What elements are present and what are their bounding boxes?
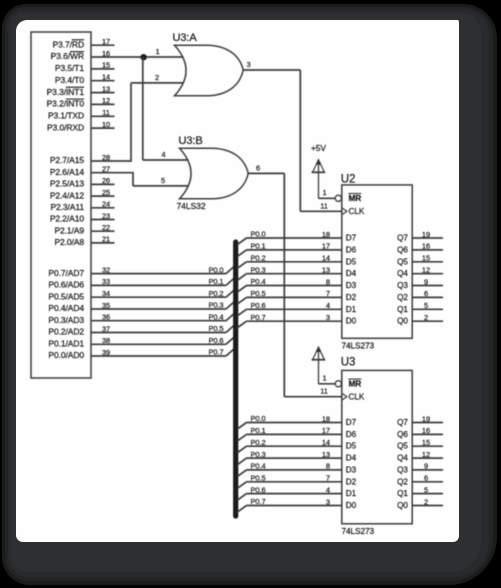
svg-text:P0.4: P0.4 (251, 277, 266, 286)
op-amp U3:A OR gate 74LS32 (173, 32, 244, 96)
svg-text:14: 14 (322, 254, 330, 263)
svg-text:P2.0/A8: P2.0/A8 (54, 237, 84, 247)
svg-text:Q7: Q7 (397, 234, 408, 243)
svg-text:P0.0: P0.0 (251, 230, 266, 239)
svg-text:P0.4/AD4: P0.4/AD4 (48, 303, 84, 313)
pin 14 P3.4/T0 (55, 73, 115, 85)
svg-text:16: 16 (422, 426, 430, 435)
svg-text:15: 15 (422, 254, 430, 263)
svg-text:P0.5: P0.5 (208, 324, 223, 333)
wire U3 Q2 output pin 6 (397, 474, 443, 487)
wire U3 Q5 output pin 15 (397, 438, 443, 451)
wire U3 Q0 output pin 2 (397, 497, 443, 510)
pin 34 P0.5/AD5 wire to bus net P0.2 (48, 289, 234, 302)
svg-text:D7: D7 (346, 418, 357, 427)
svg-text:P3.1/TXD: P3.1/TXD (48, 111, 84, 121)
svg-text:D7: D7 (346, 234, 357, 243)
svg-text:P0.6: P0.6 (208, 336, 223, 345)
svg-text:39: 39 (102, 348, 110, 357)
svg-text:P0.6: P0.6 (251, 301, 266, 310)
svg-text:P0.1: P0.1 (208, 277, 223, 286)
svg-text:35: 35 (102, 301, 110, 310)
svg-text:2: 2 (155, 73, 159, 82)
svg-text:D5: D5 (346, 257, 357, 266)
svg-text:MR: MR (349, 193, 362, 203)
svg-text:D2: D2 (346, 293, 357, 302)
wire bus P0.3 to U2 D4 pin 13 (237, 265, 357, 280)
svg-text:P2.5/A13: P2.5/A13 (50, 179, 85, 189)
pin 35 P0.4/AD4 wire to bus net P0.3 (48, 301, 234, 314)
svg-text:2: 2 (424, 497, 428, 506)
wire U2 Q3 output pin 9 (397, 277, 443, 290)
svg-text:P0.4: P0.4 (251, 462, 266, 471)
label 74LS32 (177, 201, 206, 211)
svg-text:6: 6 (256, 163, 260, 172)
svg-text:34: 34 (102, 289, 110, 298)
svg-text:P0.2: P0.2 (208, 289, 223, 298)
svg-text:U3: U3 (341, 356, 356, 368)
svg-text:38: 38 (102, 336, 110, 345)
svg-text:23: 23 (102, 211, 110, 220)
pin 28 P2.7/A15 (50, 153, 132, 165)
svg-text:Q6: Q6 (397, 245, 408, 254)
wire bus P0.1 to U3 D6 pin 17 (237, 426, 357, 441)
svg-text:3: 3 (326, 497, 330, 506)
svg-text:22: 22 (102, 223, 110, 232)
svg-text:P0.6: P0.6 (251, 485, 266, 494)
pin 36 P0.3/AD3 wire to bus net P0.4 (48, 312, 234, 325)
svg-text:P0.7: P0.7 (208, 348, 223, 357)
svg-text:4: 4 (326, 301, 330, 310)
+5V power symbol (U2) (311, 143, 326, 198)
pin 25 P2.4/A12 (50, 188, 115, 200)
svg-text:Q6: Q6 (397, 430, 408, 439)
svg-text:11: 11 (320, 201, 328, 210)
svg-text:Q0: Q0 (397, 501, 408, 510)
svg-text:13: 13 (102, 84, 110, 93)
svg-text:36: 36 (102, 313, 110, 322)
svg-text:D3: D3 (346, 465, 357, 474)
svg-text:Q0: Q0 (397, 317, 408, 326)
svg-text:P0.3: P0.3 (208, 301, 223, 310)
svg-text:9: 9 (424, 277, 428, 286)
svg-text:2: 2 (424, 313, 428, 322)
svg-text:Q4: Q4 (397, 269, 408, 278)
IC U2 74LS273 (341, 173, 412, 338)
svg-text:U2: U2 (341, 173, 356, 185)
svg-text:Q3: Q3 (397, 465, 408, 474)
wire U3:B output 6 to U3 CLK (248, 163, 342, 396)
wire U2 Q6 output pin 16 (397, 242, 443, 255)
wire pin 11 into U3 CLK (320, 387, 328, 396)
svg-text:Q1: Q1 (397, 305, 408, 314)
svg-text:D0: D0 (346, 317, 357, 326)
svg-text:3: 3 (247, 60, 251, 69)
svg-text:MR: MR (349, 379, 362, 389)
svg-text:4: 4 (326, 485, 330, 494)
pin 21 P2.0/A8 (54, 235, 114, 247)
wire bus P0.5 to U2 D2 pin 7 (237, 289, 357, 304)
wire bus P0.0 to U2 D7 pin 18 (237, 230, 357, 245)
svg-text:D1: D1 (346, 305, 357, 314)
pin 16 P3.6/WR (51, 49, 115, 61)
svg-text:P2.4/A12: P2.4/A12 (50, 190, 85, 200)
pin 23 P2.2/A10 (50, 211, 115, 223)
svg-text:5: 5 (424, 485, 428, 494)
svg-text:P3.3/INT1: P3.3/INT1 (47, 87, 85, 97)
svg-text:P3.7/RD: P3.7/RD (53, 39, 84, 49)
wire P2.6/A14 down to U3:B input 5 (133, 173, 189, 186)
svg-text:15: 15 (102, 61, 110, 70)
wire +5V to U3 MR pin 1 (319, 373, 336, 384)
svg-text:26: 26 (102, 176, 110, 185)
svg-text:Q4: Q4 (397, 454, 408, 463)
wire U2 Q2 output pin 6 (397, 289, 443, 302)
svg-text:P0.3: P0.3 (251, 265, 266, 274)
svg-text:7: 7 (326, 289, 330, 298)
svg-text:12: 12 (422, 266, 430, 275)
svg-text:D2: D2 (346, 477, 357, 486)
pin 27 P2.6/A14 (50, 165, 134, 177)
svg-text:24: 24 (102, 200, 110, 209)
svg-text:74LS273: 74LS273 (342, 341, 375, 351)
svg-text:9: 9 (424, 462, 428, 471)
svg-text:11: 11 (102, 108, 109, 117)
IC U3 74LS273 (341, 356, 412, 523)
svg-text:1: 1 (323, 373, 327, 382)
svg-text:P2.7/A15: P2.7/A15 (50, 155, 85, 165)
wire U3 Q4 output pin 12 (397, 450, 443, 463)
svg-text:P0.7/AD7: P0.7/AD7 (48, 268, 84, 278)
wire U3 Q3 output pin 9 (397, 462, 443, 475)
pin 17 P3.7/RD (53, 37, 115, 49)
pin 12 P3.2/INT0 (47, 96, 115, 108)
svg-text:P0.1/AD1: P0.1/AD1 (48, 339, 84, 349)
wire +5V to U2 MR pin 1 (319, 188, 336, 199)
svg-text:Q3: Q3 (397, 281, 408, 290)
svg-text:5: 5 (161, 176, 165, 185)
wire bus P0.2 to U3 D5 pin 14 (237, 438, 357, 453)
pin 13 P3.3/INT1 (47, 84, 115, 96)
svg-text:P0.2/AD2: P0.2/AD2 (48, 327, 84, 337)
svg-text:P0.0: P0.0 (208, 265, 223, 274)
svg-text:6: 6 (424, 289, 428, 298)
svg-text:19: 19 (422, 414, 430, 423)
pin 22 P2.1/A9 (54, 223, 114, 235)
svg-text:P2.1/A9: P2.1/A9 (54, 225, 84, 235)
svg-text:13: 13 (322, 450, 330, 459)
svg-text:33: 33 (102, 277, 110, 286)
wire P2.7/A15 up to U3:A input 2 (131, 73, 184, 161)
svg-text:74LS32: 74LS32 (177, 201, 206, 211)
svg-text:16: 16 (102, 49, 110, 58)
svg-text:P3.0/RXD: P3.0/RXD (47, 122, 84, 132)
svg-text:CLK: CLK (349, 206, 365, 216)
wire pin 11 into U2 CLK (320, 201, 328, 210)
pin 32 P0.7/AD7 wire to bus net P0.0 (48, 265, 234, 278)
svg-text:32: 32 (102, 265, 110, 274)
svg-text:U3:B: U3:B (179, 135, 203, 147)
label 74LS273 (U3) (342, 526, 375, 536)
svg-text:8: 8 (326, 277, 330, 286)
label 74LS273 (U2) (342, 341, 375, 351)
svg-text:14: 14 (322, 438, 330, 447)
svg-text:D5: D5 (346, 442, 357, 451)
svg-text:13: 13 (322, 266, 330, 275)
pin 11 P3.1/TXD (48, 108, 115, 120)
svg-text:14: 14 (102, 73, 110, 82)
svg-text:Q2: Q2 (397, 477, 408, 486)
svg-text:P0.0/AD0: P0.0/AD0 (48, 350, 84, 360)
svg-text:P3.2/INT0: P3.2/INT0 (47, 99, 85, 109)
svg-text:P0.0: P0.0 (251, 414, 266, 423)
svg-text:28: 28 (102, 153, 110, 162)
svg-text:Q2: Q2 (397, 293, 408, 302)
svg-text:1: 1 (156, 47, 160, 56)
svg-text:27: 27 (102, 165, 110, 174)
U2 CLK pin triangle (342, 206, 365, 216)
svg-text:18: 18 (322, 414, 330, 423)
svg-text:P0.5/AD5: P0.5/AD5 (48, 291, 84, 301)
pin 15 P3.5/T1 (55, 61, 115, 73)
wire bus P0.7 to U2 D0 pin 3 (237, 313, 357, 328)
svg-text:P0.5: P0.5 (251, 474, 266, 483)
wire bus P0.5 to U3 D2 pin 7 (237, 474, 357, 489)
svg-text:7: 7 (326, 474, 330, 483)
svg-text:1: 1 (323, 188, 327, 197)
svg-text:P0.7: P0.7 (251, 313, 266, 322)
svg-text:+5V: +5V (311, 143, 326, 153)
svg-text:P2.3/A11: P2.3/A11 (50, 202, 84, 212)
svg-text:11: 11 (320, 387, 328, 396)
pin 10 P3.0/RXD (47, 120, 115, 132)
wire bus P0.4 to U2 D3 pin 8 (237, 277, 357, 292)
MCU box U1 (31, 32, 91, 378)
svg-text:D1: D1 (346, 489, 357, 498)
svg-text:P3.5/T1: P3.5/T1 (55, 63, 84, 73)
wire bus P0.6 to U2 D1 pin 4 (237, 301, 357, 316)
bus P0 (thick vertical) (233, 242, 238, 516)
pin 26 P2.5/A13 (50, 176, 115, 188)
svg-text:15: 15 (422, 438, 430, 447)
svg-text:P0.3/AD3: P0.3/AD3 (48, 315, 84, 325)
svg-text:19: 19 (422, 230, 430, 239)
svg-text:37: 37 (102, 324, 110, 333)
svg-text:CLK: CLK (349, 392, 365, 402)
wire U3:A output 3 to U2 CLK (243, 60, 342, 212)
wire junction down to U3:B input 4 (143, 57, 189, 160)
svg-text:D4: D4 (346, 454, 357, 463)
svg-text:P0.6/AD6: P0.6/AD6 (48, 280, 84, 290)
U2 MR pin bubble (335, 193, 361, 203)
pin 33 P0.6/AD6 wire to bus net P0.1 (48, 277, 234, 290)
wire U3 Q7 output pin 19 (397, 414, 443, 427)
pin 39 P0.0/AD0 wire to bus net P0.7 (48, 348, 234, 361)
svg-text:P3.6/WR: P3.6/WR (51, 51, 84, 61)
wire bus P0.2 to U2 D5 pin 14 (237, 254, 357, 269)
junction node on WR line (140, 54, 146, 60)
svg-text:P0.3: P0.3 (251, 450, 266, 459)
svg-text:4: 4 (162, 150, 166, 159)
wire bus P0.0 to U3 D7 pin 18 (237, 414, 357, 429)
pin 38 P0.1/AD1 wire to bus net P0.6 (48, 336, 234, 349)
svg-text:Q7: Q7 (397, 418, 408, 427)
svg-text:6: 6 (424, 474, 428, 483)
svg-text:18: 18 (322, 230, 330, 239)
svg-text:21: 21 (102, 235, 110, 244)
wire bus P0.6 to U3 D1 pin 4 (237, 485, 357, 500)
svg-text:P0.2: P0.2 (251, 254, 266, 263)
svg-text:3: 3 (326, 313, 330, 322)
svg-text:D0: D0 (346, 501, 357, 510)
wire bus P0.1 to U2 D6 pin 17 (237, 242, 357, 257)
svg-text:17: 17 (322, 242, 330, 251)
wire U2 Q0 output pin 2 (397, 313, 443, 326)
wire U3 Q6 output pin 16 (397, 426, 443, 439)
svg-text:17: 17 (102, 37, 110, 46)
svg-text:Q5: Q5 (397, 257, 408, 266)
svg-text:16: 16 (422, 242, 430, 251)
svg-text:74LS273: 74LS273 (342, 526, 375, 536)
U3 CLK pin triangle (342, 392, 365, 402)
pin 37 P0.2/AD2 wire to bus net P0.5 (48, 324, 234, 337)
svg-text:17: 17 (322, 426, 330, 435)
svg-text:D4: D4 (346, 269, 357, 278)
svg-text:Q5: Q5 (397, 442, 408, 451)
svg-text:P0.1: P0.1 (251, 242, 266, 251)
wire bus P0.7 to U3 D0 pin 3 (237, 497, 357, 512)
wire bus P0.3 to U3 D4 pin 13 (237, 450, 357, 465)
svg-text:10: 10 (102, 120, 110, 129)
svg-text:P0.1: P0.1 (251, 426, 266, 435)
svg-text:D3: D3 (346, 281, 357, 290)
svg-text:D6: D6 (346, 430, 357, 439)
wire U2 Q1 output pin 5 (397, 301, 443, 314)
wire U2 Q7 output pin 19 (397, 230, 443, 243)
U3 MR pin bubble (335, 379, 361, 389)
svg-text:U3:A: U3:A (173, 32, 198, 44)
svg-text:25: 25 (102, 188, 110, 197)
svg-text:P2.2/A10: P2.2/A10 (50, 214, 85, 224)
wire U2 Q4 output pin 12 (397, 266, 443, 279)
svg-text:P0.4: P0.4 (208, 312, 223, 321)
svg-text:P0.5: P0.5 (251, 289, 266, 298)
wire bus P0.4 to U3 D3 pin 8 (237, 462, 357, 477)
wire P3.6/WR to U3:A input 1 (115, 47, 184, 57)
svg-text:P2.6/A14: P2.6/A14 (50, 167, 85, 177)
op-amp U3:B OR gate 74LS32 (179, 135, 249, 199)
svg-text:P0.7: P0.7 (251, 497, 266, 506)
wire U2 Q5 output pin 15 (397, 254, 443, 267)
wire U3 Q1 output pin 5 (397, 485, 443, 498)
svg-text:D6: D6 (346, 245, 357, 254)
svg-text:8: 8 (326, 462, 330, 471)
svg-text:P0.2: P0.2 (251, 438, 266, 447)
svg-text:5: 5 (424, 301, 428, 310)
pin 24 P2.3/A11 (50, 200, 114, 212)
svg-text:12: 12 (422, 450, 430, 459)
svg-text:P3.4/T0: P3.4/T0 (55, 75, 84, 85)
svg-text:Q1: Q1 (397, 489, 408, 498)
+5V power symbol (U3) (312, 346, 326, 384)
svg-text:12: 12 (102, 96, 110, 105)
